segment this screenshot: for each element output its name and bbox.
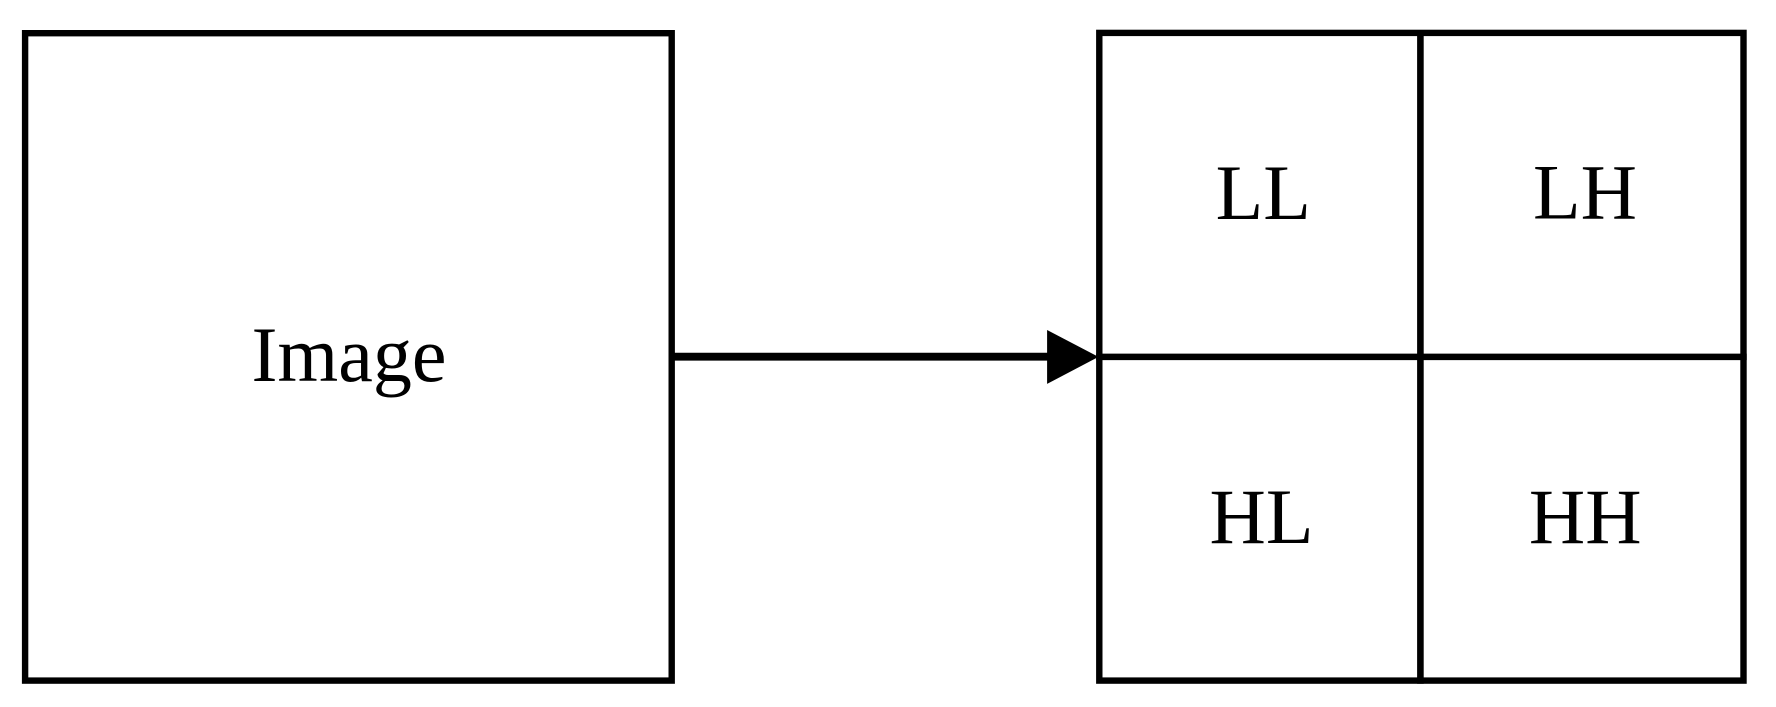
arrowhead — [1047, 330, 1098, 384]
image box — [25, 33, 672, 680]
grid vertical divider — [1417, 30, 1424, 684]
wire arrow shaft — [673, 353, 1055, 361]
svg-text:HH: HH — [1529, 473, 1642, 560]
svg-text:LH: LH — [1533, 149, 1637, 236]
subband grid box — [1099, 33, 1743, 681]
svg-text:Image: Image — [252, 311, 447, 398]
svg-text:LL: LL — [1216, 149, 1311, 236]
svg-text:HL: HL — [1210, 473, 1314, 560]
grid horizontal divider — [1096, 354, 1747, 361]
